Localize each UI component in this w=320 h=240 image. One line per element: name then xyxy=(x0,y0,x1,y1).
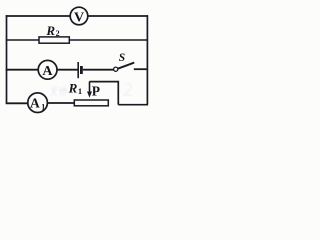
svg-text:1: 1 xyxy=(78,86,82,96)
svg-text:1: 1 xyxy=(41,102,45,111)
bleed-through smudge left of rheostat xyxy=(51,86,67,96)
svg-text:R: R xyxy=(45,23,55,38)
battery BT1 short plate xyxy=(80,66,83,74)
wire left vertical xyxy=(6,15,8,103)
switch S pivot circle xyxy=(114,67,118,71)
wire bottom right horizontal xyxy=(118,104,148,106)
battery BT1 long plate xyxy=(77,62,79,78)
wire row3 ammeter to battery xyxy=(57,69,78,71)
voltmeter U3 circle xyxy=(70,7,88,25)
wire right vertical xyxy=(146,15,148,105)
svg-text:A: A xyxy=(42,64,53,79)
wire row2 left xyxy=(6,39,39,41)
wire slider horizontal xyxy=(90,81,119,83)
svg-text:R: R xyxy=(68,80,78,95)
wire slider step vertical xyxy=(117,81,119,105)
resistor R2 body xyxy=(39,37,69,43)
wire top row right of voltmeter xyxy=(88,15,148,17)
switch S blade xyxy=(118,63,135,69)
bleed-through numeral near step wire xyxy=(124,83,132,95)
svg-text:A: A xyxy=(30,96,40,111)
wire row3 battery to switch xyxy=(83,69,114,71)
svg-text:2: 2 xyxy=(56,29,60,38)
ammeter U2 circle A1 xyxy=(28,93,48,113)
ammeter U1 circle xyxy=(38,60,57,79)
svg-text:P: P xyxy=(92,84,100,99)
rheostat slider wiper arrow xyxy=(89,82,91,93)
svg-text:S: S xyxy=(119,52,125,64)
wire bottom ammeter to rheostat xyxy=(47,102,74,104)
wire row3 left xyxy=(6,69,39,71)
wire bottom row left xyxy=(6,102,28,104)
svg-text:V: V xyxy=(74,10,84,25)
wire row2 right xyxy=(69,39,148,41)
wire top row xyxy=(6,15,70,17)
rheostat R1 body xyxy=(74,100,108,106)
wire row3 switch to right xyxy=(134,68,148,70)
